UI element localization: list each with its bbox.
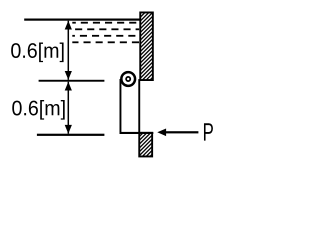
gate left edge xyxy=(120,79,122,134)
middle reference line (hinge level) xyxy=(39,80,105,82)
hatched wall (upper) xyxy=(140,12,153,80)
bottom reference line xyxy=(37,134,105,136)
dimension line lower segment xyxy=(65,82,72,134)
label P xyxy=(204,123,213,140)
force arrow P xyxy=(157,128,198,136)
label 0.6[m] lower xyxy=(12,100,64,120)
water surface line xyxy=(24,19,140,21)
water surface dashes xyxy=(72,22,139,43)
dimension line upper segment xyxy=(65,21,72,80)
gate bottom edge xyxy=(120,132,154,134)
gate right edge xyxy=(138,79,140,134)
hinge pin xyxy=(121,72,135,86)
hatched support block (lower) xyxy=(139,133,152,157)
label 0.6[m] upper xyxy=(11,43,63,63)
